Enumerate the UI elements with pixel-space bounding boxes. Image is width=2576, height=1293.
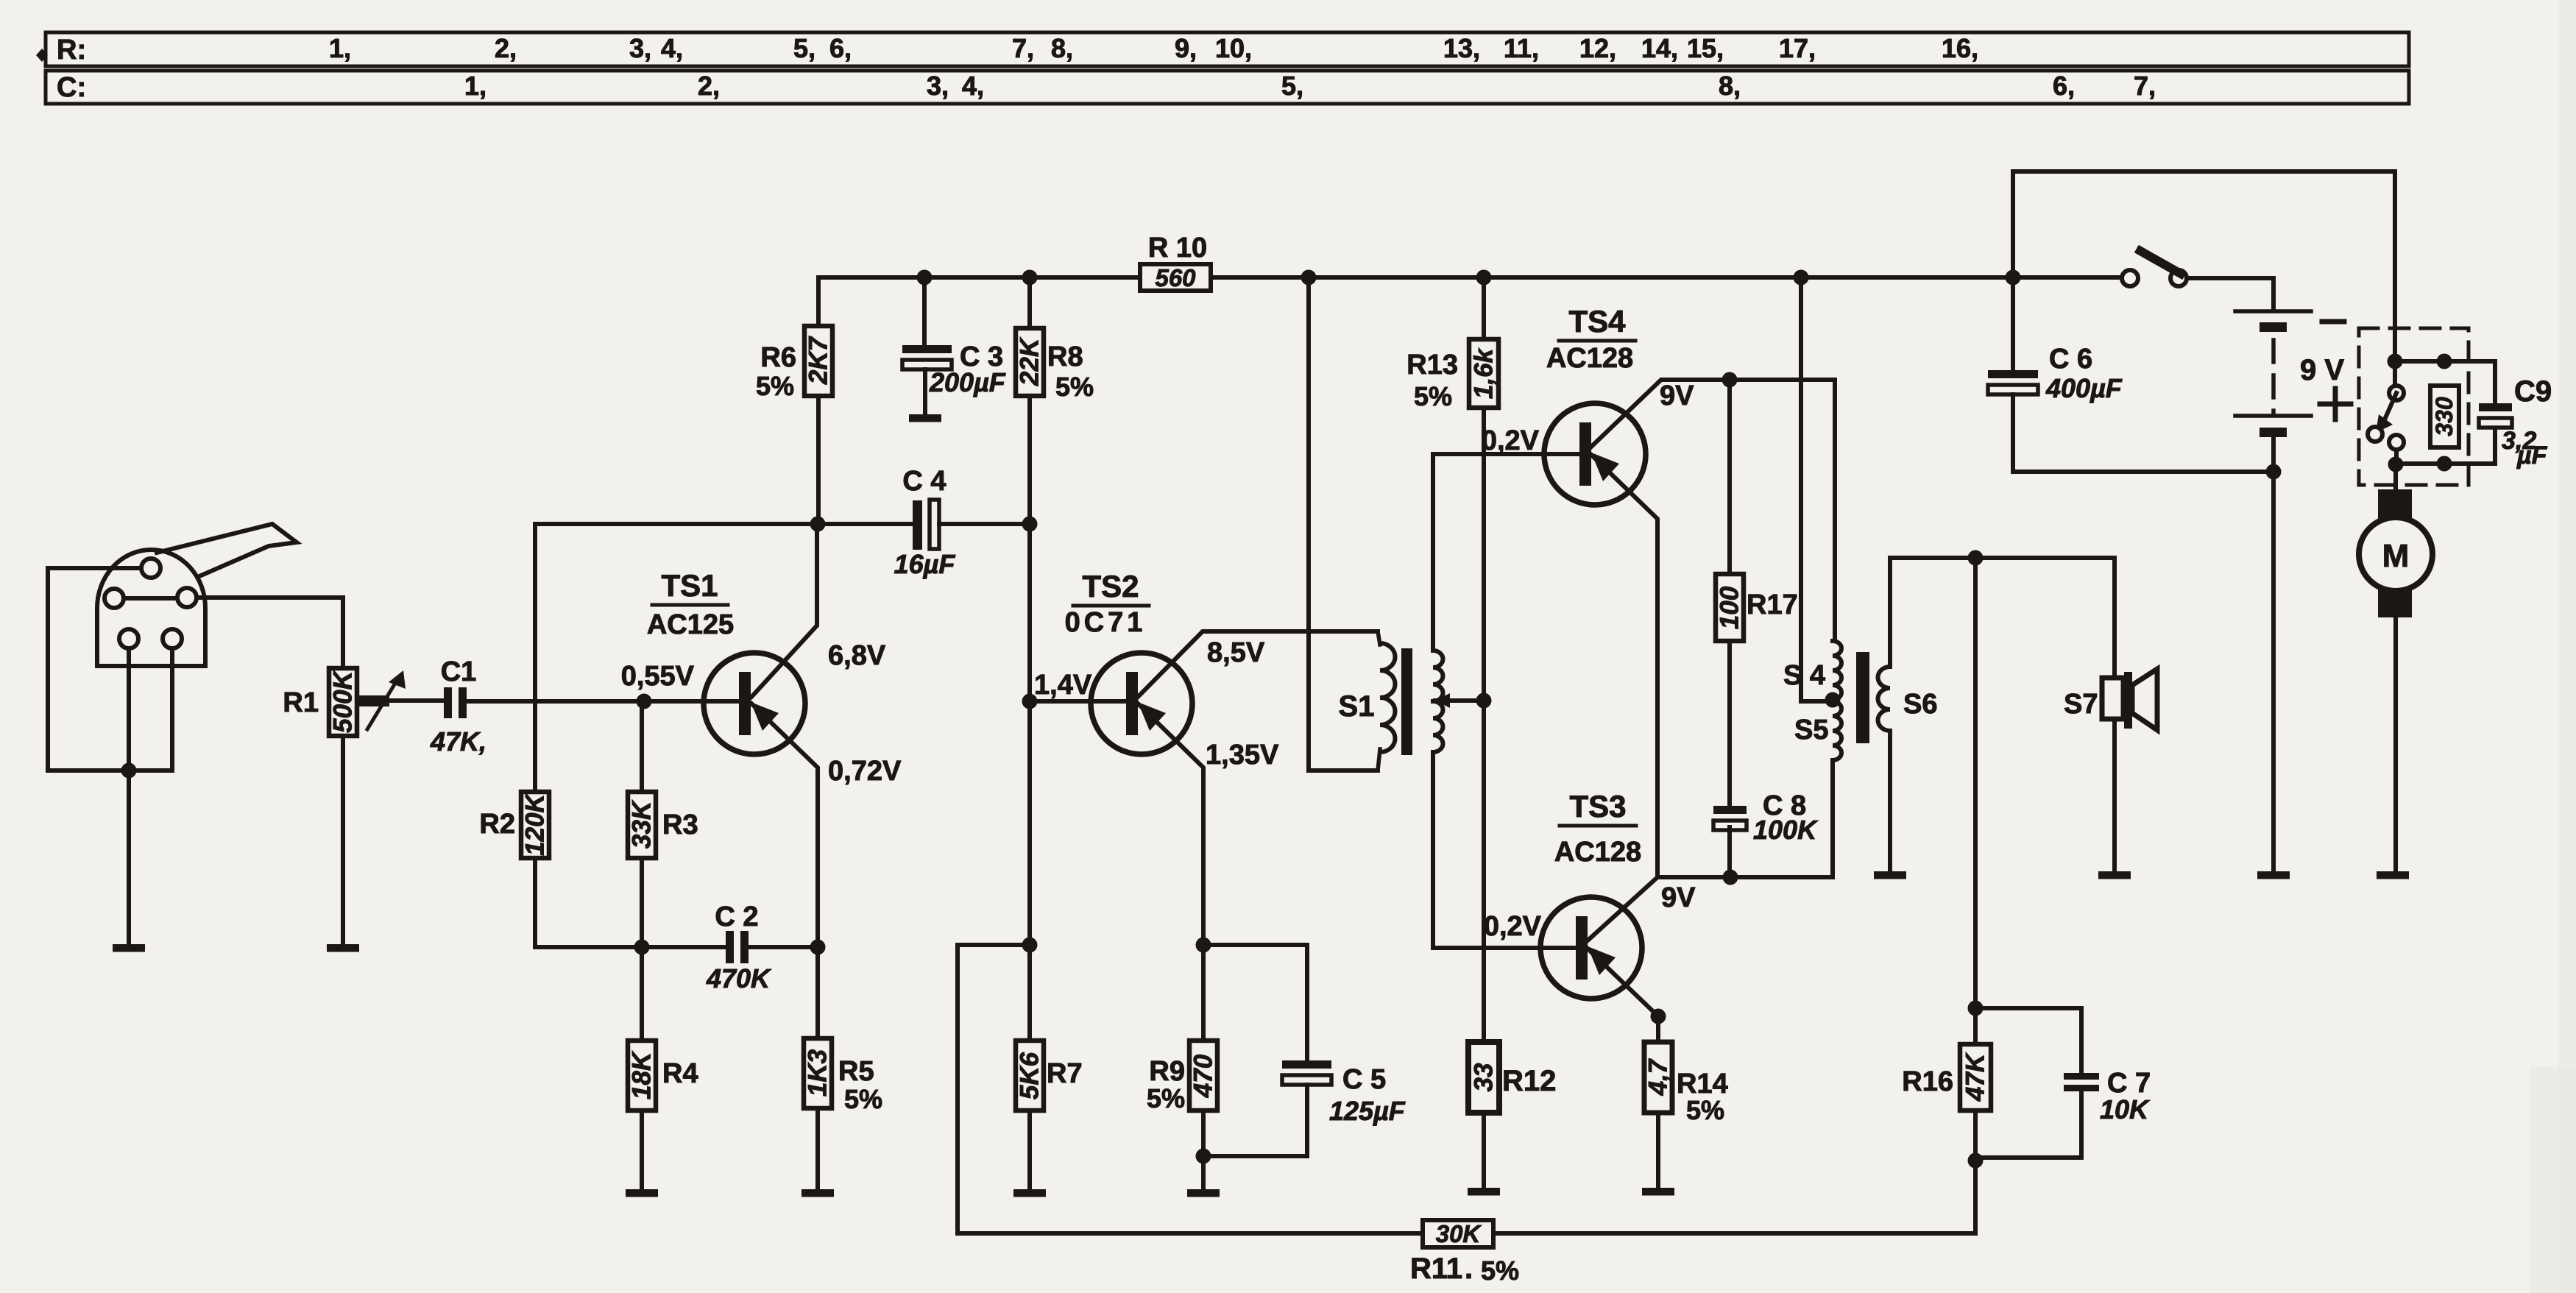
svg-text:C:: C:	[57, 72, 86, 103]
svg-text:.: .	[1465, 1253, 1473, 1285]
svg-text:C 5: C 5	[1342, 1064, 1386, 1095]
wire R8 bottom	[1027, 396, 1032, 524]
resistor R10 560	[1140, 264, 1211, 291]
svg-text:5%: 5%	[1481, 1255, 1519, 1286]
svg-text:C 2: C 2	[715, 901, 758, 932]
svg-text:200µF: 200µF	[929, 367, 1006, 397]
R1 wiper arrow	[367, 681, 397, 729]
svg-text:1,6k: 1,6k	[1470, 347, 1498, 399]
transformer winding S6	[1878, 667, 1891, 731]
svg-text:47K,: 47K,	[430, 726, 486, 757]
R1 wiper lead	[356, 695, 389, 706]
capacitor C3 200uF	[902, 345, 952, 353]
wire R6 top to rail	[816, 277, 821, 326]
svg-text:7,: 7,	[2134, 71, 2156, 101]
wire R16 branch down	[1973, 558, 1978, 1008]
plug pin 4	[119, 629, 138, 648]
wire R8 node down to TS2 base	[1027, 524, 1032, 701]
svg-text:6,8V: 6,8V	[828, 640, 886, 671]
svg-text:16,: 16,	[1942, 33, 1978, 63]
svg-text:R13: R13	[1406, 350, 1458, 380]
wire bottom feedback rail	[958, 1231, 1975, 1236]
legend bar frame (component location table)	[46, 32, 2409, 66]
svg-text:5,: 5,	[1281, 71, 1303, 101]
svg-text:47K: 47K	[1961, 1052, 1990, 1102]
svg-text:18K: 18K	[628, 1050, 657, 1099]
svg-text:R17: R17	[1747, 589, 1798, 620]
svg-text:30K: 30K	[1436, 1220, 1482, 1247]
svg-text:100K: 100K	[1753, 815, 1819, 845]
wire R1 wiper to C1	[389, 698, 444, 703]
motor M top brush	[2378, 489, 2412, 519]
svg-text:TS3: TS3	[1569, 789, 1626, 823]
wire S1 secondary bottom to TS3 base	[1433, 752, 1575, 948]
svg-text:470: 470	[1189, 1054, 1218, 1098]
plug pin 3	[177, 588, 197, 607]
wire TS1 emitter down	[751, 704, 818, 947]
svg-text:5,: 5,	[793, 33, 815, 63]
battery minus label	[2322, 319, 2344, 325]
svg-text:13,: 13,	[1443, 33, 1480, 63]
junction C3 rail node	[917, 270, 933, 286]
wire TS3 collector line to S5	[1587, 760, 1833, 941]
resistor R16 47K	[1960, 1044, 1991, 1110]
wire TS1 base lead	[644, 699, 738, 704]
svg-text:9,: 9,	[1175, 33, 1197, 63]
svg-text:R5: R5	[838, 1056, 874, 1087]
resistor R1 (potentiometer) 500K	[329, 668, 357, 736]
ground (R14)	[1642, 1188, 1674, 1196]
capacitor C1 47K	[444, 687, 452, 718]
resistor R12 33	[1468, 1042, 1499, 1113]
svg-text:4,: 4,	[962, 71, 984, 101]
wire R7 top	[1027, 945, 1032, 1041]
svg-text:8,5V: 8,5V	[1207, 637, 1265, 668]
svg-text:M: M	[2382, 538, 2410, 574]
wire C5 bottom branch	[1203, 1085, 1307, 1156]
wire S5 bottom to TS3 collector line	[1830, 760, 1835, 877]
motor switch contact bottom	[2389, 435, 2404, 450]
wire TS3 emitter to R14	[1656, 1016, 1660, 1042]
wire pin2 to pin3	[124, 596, 177, 601]
ground (R4)	[626, 1189, 658, 1197]
resistor R7 5K6	[1016, 1041, 1044, 1110]
wire S7 to ground	[2112, 719, 2117, 871]
resistor R2 120K	[521, 792, 549, 858]
battery cell 2 long plate	[2235, 414, 2311, 418]
junction motor switch top node	[2388, 354, 2403, 369]
wire motor to ground	[2393, 617, 2398, 871]
svg-text:3,: 3,	[629, 33, 651, 63]
wire R16 node to bottom rail	[1973, 1161, 1978, 1233]
battery plus label	[2320, 402, 2351, 407]
junction TS2 emitter / R9 node	[1196, 938, 1211, 953]
wire R7 to ground	[1027, 1110, 1032, 1189]
svg-text:0,55V: 0,55V	[621, 661, 695, 692]
ground (R1)	[327, 944, 359, 952]
svg-text:22K: 22K	[1016, 336, 1044, 386]
wire TS4 collector to S4	[1590, 380, 1835, 641]
resistor R13 1,6k	[1469, 339, 1498, 408]
wire R4 to ground	[640, 1110, 644, 1189]
junction TS1 base node 0,55V	[637, 694, 652, 709]
plug pin 2	[105, 589, 124, 608]
plug pin 1	[141, 559, 160, 578]
svg-text:7,: 7,	[1012, 33, 1034, 63]
capacitor C6 400uF	[1988, 370, 2038, 378]
capacitor C5 125uF	[1282, 1060, 1331, 1069]
speaker S7 bar	[2124, 672, 2132, 729]
speaker S7 coil box	[2102, 678, 2123, 719]
junction R7 node	[1022, 938, 1038, 953]
wire C9 bottom to node	[2396, 425, 2495, 464]
wire R1 bottom to ground	[341, 736, 345, 944]
wire R17 top	[1727, 380, 1732, 574]
wire R9 top	[1201, 945, 1206, 1041]
svg-text:R4: R4	[662, 1058, 698, 1089]
wire R3 to C2 line	[640, 858, 644, 947]
svg-text:1,: 1,	[329, 33, 351, 63]
wire TS4 emitter down to TS3 collector node	[1590, 454, 1657, 877]
wire node to motor	[2393, 464, 2398, 492]
wire S1 center tap	[1435, 698, 1484, 703]
wire R13 top to rail	[1482, 277, 1486, 339]
svg-text:1,4V: 1,4V	[1034, 670, 1092, 701]
wire R6 bottom	[816, 396, 821, 524]
wire switch to battery	[2187, 278, 2274, 310]
svg-text:120K: 120K	[521, 792, 550, 855]
svg-text:5K6: 5K6	[1016, 1052, 1044, 1099]
wire TS3 emitter	[1587, 948, 1658, 1016]
svg-text:33: 33	[1470, 1063, 1498, 1091]
wire pin3 to R1 top	[197, 598, 343, 668]
transistor TS4 AC128	[1544, 403, 1646, 505]
wire R12 to ground	[1482, 1113, 1486, 1188]
wire C3 to ground	[923, 369, 927, 414]
wire tap node to R12	[1482, 701, 1486, 1042]
wire C6 bottom to battery minus line	[2013, 394, 2274, 472]
wire feedback branch to bottom rail	[958, 945, 1030, 1233]
svg-text:330: 330	[2431, 397, 2458, 436]
junction R16/C7 top node	[1968, 1001, 1984, 1016]
ground (R5)	[802, 1189, 834, 1197]
junction R330 top node	[2437, 354, 2452, 369]
svg-text:560: 560	[1155, 264, 1196, 291]
wire TS2 emitter down	[1138, 704, 1203, 945]
svg-text:12,: 12,	[1579, 33, 1616, 63]
transformer S1 core	[1401, 648, 1412, 755]
svg-text:R9: R9	[1149, 1056, 1185, 1087]
motor switch dashed enclosure	[2359, 328, 2469, 485]
wire C6 from rail	[2011, 277, 2015, 370]
wire S1 secondary top to TS4 base	[1433, 454, 1579, 651]
svg-text:R8: R8	[1047, 341, 1083, 372]
svg-text:8,: 8,	[1719, 71, 1741, 101]
wire C5 top branch	[1203, 945, 1307, 1060]
junction TS3 emitter node	[1651, 1009, 1666, 1024]
svg-text:470K: 470K	[706, 963, 772, 993]
wire R2 riser from collector line (crossover, no junction)	[533, 524, 537, 792]
svg-text:14,: 14,	[1641, 33, 1678, 63]
junction plug ground node	[121, 763, 137, 779]
svg-text:1,35V: 1,35V	[1206, 740, 1279, 771]
wire C3 from rail	[922, 277, 927, 345]
svg-text:0,2V: 0,2V	[1482, 425, 1540, 456]
svg-text:16µF: 16µF	[894, 549, 956, 579]
svg-text:C1: C1	[441, 656, 477, 687]
svg-text:2,: 2,	[698, 71, 720, 101]
svg-text:5%: 5%	[756, 371, 794, 401]
resistor R330	[2430, 386, 2459, 447]
wire battery node to ground	[2271, 472, 2276, 871]
svg-text:R16: R16	[1902, 1066, 1953, 1097]
svg-text:11,: 11,	[1504, 33, 1539, 63]
svg-text:R7: R7	[1047, 1058, 1083, 1089]
ground (plug)	[113, 944, 145, 952]
wire rail to S4/S5 center tap	[1801, 277, 1831, 701]
wire rail to S1 primary bottom (crosses collector line)	[1309, 277, 1378, 771]
svg-text:9V: 9V	[1660, 380, 1694, 411]
wire R16 top stub	[1973, 1008, 1978, 1044]
junction S4/S5 center tap	[1825, 692, 1841, 708]
resistor R11 30K	[1423, 1220, 1493, 1247]
junction R16/C7 bottom node	[1968, 1153, 1984, 1169]
junction C8 bottom node	[1723, 870, 1738, 885]
svg-text:TS1: TS1	[661, 568, 718, 603]
ground (R9)	[1187, 1189, 1220, 1197]
svg-text:AC128: AC128	[1554, 837, 1641, 868]
junction R8 bottom node	[1022, 517, 1038, 532]
wire supply rail	[818, 275, 2122, 280]
ground (R7)	[1013, 1189, 1046, 1197]
wire top loop rail to motor switch	[2013, 171, 2395, 386]
junction R8 rail node	[1022, 270, 1038, 286]
junction S1 rail node	[1301, 270, 1317, 286]
transformer S1 primary winding	[1380, 643, 1395, 752]
wire R13 bottom to tap node	[1482, 408, 1486, 701]
svg-text:4,: 4,	[661, 33, 683, 63]
svg-text:5%: 5%	[1686, 1095, 1724, 1125]
motor switch contact left	[2368, 427, 2382, 442]
power switch lever	[2140, 251, 2181, 274]
svg-text:100: 100	[1716, 586, 1744, 629]
svg-text:R11: R11	[1410, 1253, 1462, 1285]
svg-text:0C71: 0C71	[1065, 607, 1147, 638]
svg-text:3,: 3,	[927, 71, 949, 101]
capacitor C2 470K	[726, 931, 734, 963]
svg-text:400µF: 400µF	[2045, 373, 2123, 403]
svg-text:6,: 6,	[2053, 71, 2075, 101]
wire R16 bottom stub	[1973, 1110, 1978, 1161]
resistor R14 4,7	[1644, 1042, 1672, 1113]
svg-text:17,: 17,	[1779, 33, 1816, 63]
wire R4 top	[640, 947, 644, 1041]
tape-head plug body	[97, 550, 205, 666]
resistor R4 18K	[628, 1041, 656, 1110]
tape-head plug lever arm	[157, 524, 297, 575]
svg-text:0,2V: 0,2V	[1484, 911, 1542, 942]
plug pin 5	[163, 629, 182, 648]
svg-text:1K3: 1K3	[804, 1049, 832, 1097]
svg-text:125µF: 125µF	[1329, 1096, 1406, 1126]
resistor R5 1K3	[804, 1038, 832, 1108]
svg-text:S1: S1	[1339, 690, 1375, 723]
wire plug node to ground	[127, 771, 131, 944]
junction battery minus node	[2266, 464, 2282, 480]
wire switch bottom contact to node	[2394, 450, 2399, 464]
wire switch top node to C9	[2395, 361, 2495, 403]
capacitor C9 3,2uF	[2479, 403, 2512, 411]
svg-text:2,: 2,	[495, 33, 517, 63]
junction R330 bottom node	[2437, 456, 2452, 472]
wire R9 to ground	[1201, 1110, 1206, 1189]
svg-text:R:: R:	[57, 35, 86, 65]
wire R2 bottom to C2 line	[535, 858, 642, 947]
svg-text:8,: 8,	[1051, 33, 1073, 63]
wire C1 to TS1 base	[466, 699, 644, 704]
wire pin5 down	[170, 648, 174, 771]
wire TS1 base node down to R3	[640, 701, 644, 792]
svg-text:S 4: S 4	[1783, 660, 1825, 691]
wire C2 line left segment	[642, 945, 726, 949]
svg-text:0,72V: 0,72V	[828, 756, 902, 787]
wire R8 top to rail	[1027, 277, 1032, 328]
capacitor C4 16uF (solid+hollow plates)	[913, 500, 922, 550]
wire C7 bottom branch	[1975, 1091, 2081, 1158]
svg-text:R6: R6	[760, 342, 796, 373]
wire speaker line down to S7	[2112, 558, 2117, 678]
motor switch contact top	[2389, 386, 2404, 400]
wire collector line left corner to C4	[535, 522, 913, 526]
svg-text:6,: 6,	[829, 33, 852, 63]
transistor TS2 OC71	[1091, 653, 1192, 754]
svg-text:1,: 1,	[464, 71, 486, 101]
transformer S4/S5/S6 core	[1856, 652, 1869, 743]
power switch contact right	[2170, 270, 2187, 286]
svg-text:C9: C9	[2514, 375, 2552, 408]
svg-text:15,: 15,	[1687, 33, 1724, 63]
power switch contact left	[2122, 270, 2138, 286]
transformer winding S5	[1833, 701, 1841, 760]
svg-text:R1: R1	[283, 687, 319, 718]
svg-text:C 4: C 4	[902, 466, 946, 497]
junction C6 rail node	[2006, 270, 2021, 286]
svg-text:500K: 500K	[329, 669, 358, 732]
svg-text:C 6: C 6	[2049, 344, 2092, 375]
battery inter-cell dashed link	[2271, 340, 2276, 412]
junction motor switch bottom node	[2388, 457, 2404, 472]
junction R9/C5 bottom node	[1196, 1149, 1211, 1164]
resistor R9 470	[1189, 1041, 1217, 1110]
speaker S7 horn	[2132, 669, 2157, 730]
motor switch lever	[2385, 393, 2396, 419]
junction R3/R4/C2 node	[634, 940, 650, 955]
battery cell 1 short plate	[2260, 322, 2287, 332]
svg-text:10,: 10,	[1215, 33, 1252, 63]
ground (R12)	[1468, 1188, 1500, 1196]
junction TS2 base node 1,4V	[1022, 694, 1038, 709]
wire pin4 down	[127, 648, 131, 771]
svg-text:5%: 5%	[844, 1084, 882, 1114]
svg-text:S5: S5	[1794, 715, 1828, 745]
svg-text:5%: 5%	[1055, 372, 1094, 402]
svg-text:2K7: 2K7	[804, 336, 833, 385]
resistor R8 22K	[1016, 328, 1044, 396]
svg-text:9V: 9V	[1661, 882, 1696, 913]
ground (motor)	[2377, 871, 2409, 879]
resistor R6 2K7	[804, 326, 832, 396]
junction R13 rail node	[1476, 270, 1492, 286]
wire S6 top to speaker line	[1890, 558, 2115, 667]
transistor TS1 AC125	[704, 653, 805, 754]
wire R5 to ground	[815, 1108, 820, 1189]
wire C2 to TS1 emitter node	[747, 945, 818, 949]
ground (S7)	[2098, 871, 2131, 879]
wire C4 to R8 node	[939, 522, 1030, 526]
wire S6 bottom to ground	[1888, 731, 1892, 871]
S1 center tap wedge	[1435, 693, 1450, 708]
resistor R17 100	[1716, 574, 1744, 641]
svg-text:33K: 33K	[628, 799, 657, 849]
transformer S1 secondary winding	[1433, 651, 1443, 701]
capacitor C8 100K	[1713, 806, 1747, 814]
svg-text:TS2: TS2	[1082, 569, 1139, 603]
wire TS2 base lead	[1030, 699, 1125, 704]
svg-text:S6: S6	[1903, 689, 1937, 720]
wire battery to minus line	[2271, 437, 2276, 472]
motor M body	[2359, 517, 2432, 591]
transformer winding S4	[1833, 641, 1841, 700]
svg-text:10K: 10K	[2100, 1094, 2151, 1124]
wire pin1 left loop to bottom node	[48, 568, 172, 771]
ground (S6)	[1874, 871, 1906, 879]
svg-text:µF: µF	[2516, 442, 2548, 470]
svg-text:5%: 5%	[1147, 1083, 1185, 1113]
svg-text:AC125: AC125	[647, 609, 734, 640]
wire C8 to TS3 collector node	[1727, 827, 1732, 877]
svg-text:S7: S7	[2064, 689, 2098, 720]
svg-text:9 V: 9 V	[2300, 354, 2344, 386]
svg-text:4,7: 4,7	[1644, 1058, 1673, 1096]
wire R17 to C8	[1727, 641, 1732, 806]
wire R5 top	[815, 947, 820, 1038]
wire TS1 collector to R6 node	[751, 524, 817, 697]
svg-text:AC128: AC128	[1546, 343, 1633, 374]
junction R6 / TS1 collector node	[810, 517, 826, 532]
svg-text:R2: R2	[479, 809, 515, 840]
svg-text:R3: R3	[662, 810, 698, 840]
svg-text:TS4: TS4	[1568, 304, 1626, 339]
battery cell 1 long plate	[2235, 309, 2311, 313]
resistor R3 33K	[628, 792, 656, 858]
transistor TS3 AC128	[1540, 897, 1642, 999]
wire C7 top branch	[1975, 1008, 2081, 1073]
junction S1 tap / R13 / R12 node	[1476, 693, 1492, 709]
wire R14 to ground	[1656, 1113, 1660, 1188]
svg-text:R12: R12	[1502, 1065, 1556, 1097]
wire TS2 collector to S1	[1138, 631, 1378, 697]
wire TS2 base node down to R7 node	[1027, 701, 1032, 945]
svg-text:R 10: R 10	[1148, 233, 1207, 263]
junction TS1 emitter / R5 node	[810, 940, 826, 955]
legend left diamond marker	[36, 49, 48, 62]
battery cell 2 short plate	[2260, 428, 2287, 437]
ground (C3)	[909, 414, 941, 422]
junction S4/S5 rail node	[1794, 270, 1809, 286]
motor M bottom brush	[2378, 589, 2412, 617]
ground (battery)	[2257, 871, 2290, 879]
junction R16 tap on speaker line	[1968, 550, 1984, 566]
